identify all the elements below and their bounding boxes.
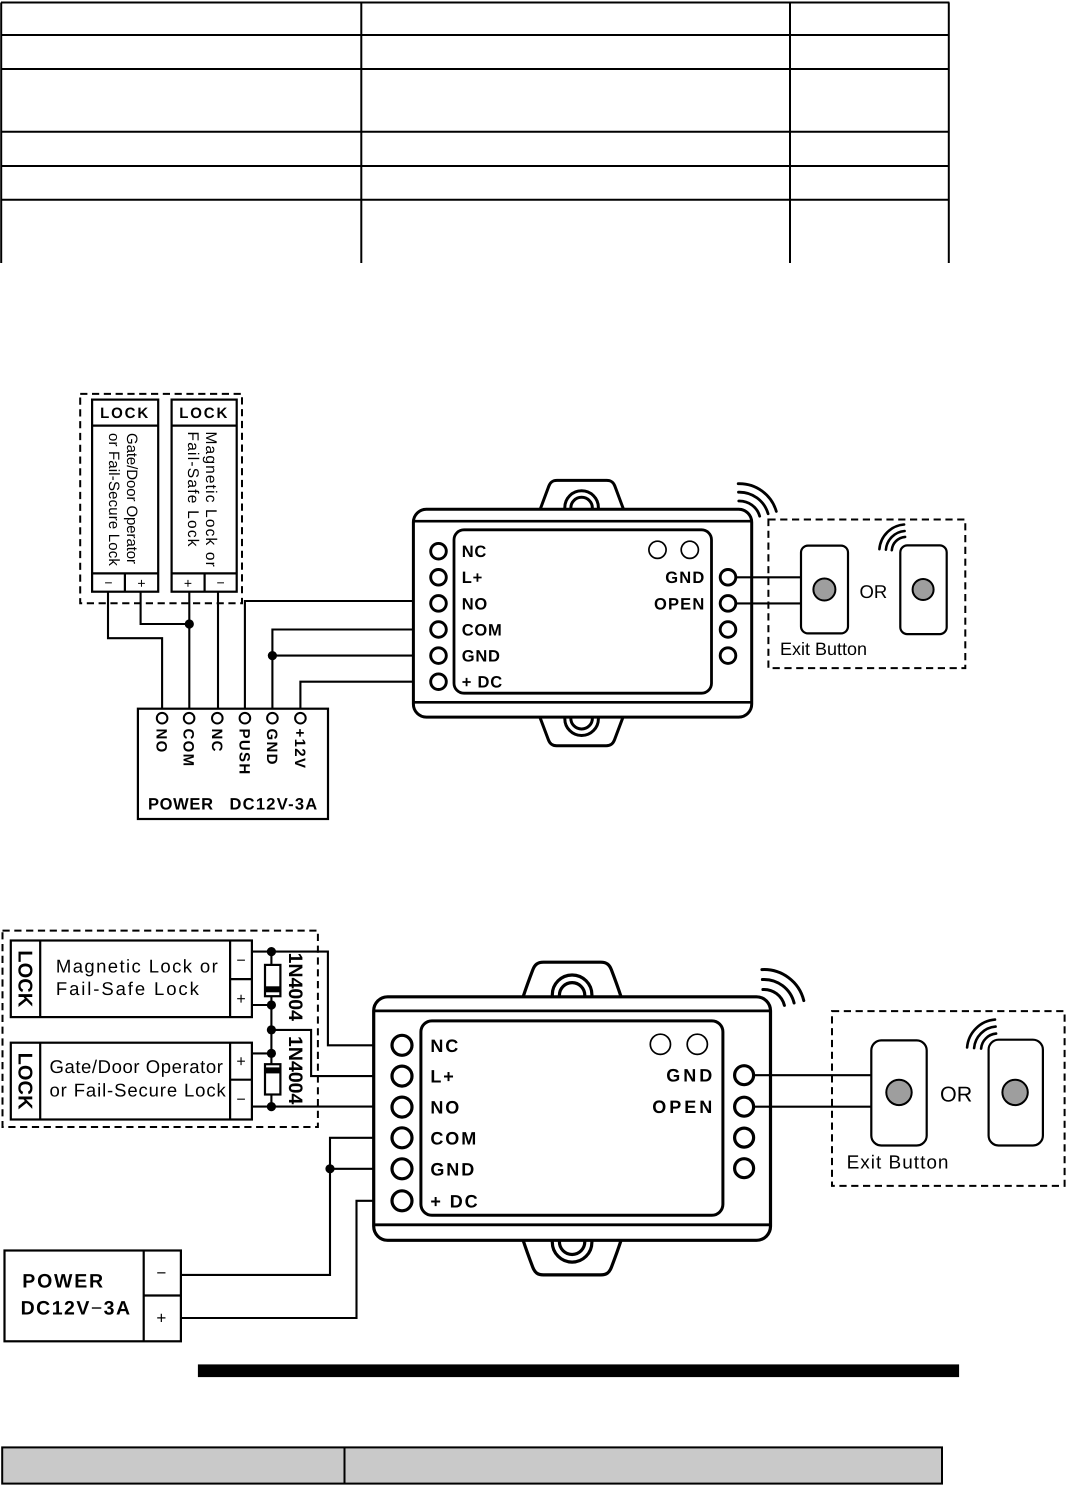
wire controller GND to exit button (diagram 1) (736, 576, 801, 578)
table: bottom gray header row (2, 1447, 942, 1483)
button actuator (wired, diagram 1) (813, 579, 835, 601)
power supply POWER DC12V-3A (diagram 1) (138, 709, 328, 819)
wire controller GND to exit button (diagram 2) (754, 1074, 872, 1076)
wire power +12V to controller +DC (300, 682, 430, 713)
wire power PUSH to controller NO (245, 601, 431, 713)
svg-text:OR: OR (860, 581, 888, 602)
svg-text:−: − (217, 574, 225, 590)
svg-text:+: + (236, 991, 245, 1008)
left terminal pins NC,L+,NO,COM,GND,+DC (diagram 1) (431, 543, 447, 559)
svg-text:LOCK: LOCK (100, 405, 150, 422)
svg-text:GND: GND (462, 648, 501, 666)
svg-text:LOCK: LOCK (13, 1053, 35, 1111)
svg-text:Gate/Door Operator: Gate/Door Operator (50, 1056, 224, 1077)
svg-text:POWER: POWER (148, 795, 214, 813)
exit button wired (diagram 1) (801, 546, 848, 634)
value label 1N4004 (D1) (284, 953, 306, 1021)
svg-text:+12V: +12V (291, 729, 308, 770)
junction dot lockB plus / diode D2 (267, 1049, 276, 1058)
wire branch to controller GND (diagram 2) (330, 1168, 392, 1170)
junction dot lockB minus / diode D2 (267, 1102, 276, 1111)
svg-text:+: + (184, 575, 192, 591)
svg-text:NO: NO (153, 729, 170, 754)
svg-text:LOCK: LOCK (179, 405, 229, 422)
wire power plus to controller +DC (181, 1201, 392, 1318)
wireless signal arcs at controller corner (diagram 2) (762, 970, 804, 1006)
wire lock2 minus to power NC (217, 592, 219, 713)
svg-text:NC: NC (208, 729, 225, 753)
mounting tab bottom (diagram 1) (540, 717, 623, 746)
wire controller OPEN to exit button (diagram 1) (736, 602, 801, 604)
LED indicators (diagram 1) (649, 541, 666, 558)
mounting tab bottom (diagram 2) (523, 1241, 621, 1275)
dashed enclosure around locks (diagram 1) (80, 394, 242, 603)
svg-text:GND: GND (665, 569, 705, 587)
diode D2 1N4004 (265, 1064, 280, 1094)
dashed enclosure around locks (diagram 2) (3, 931, 318, 1127)
wire lock1 plus to junction (141, 592, 190, 624)
svg-text:1N4004: 1N4004 (284, 953, 306, 1021)
svg-text:+ DC: + DC (430, 1191, 479, 1211)
svg-text:−: − (104, 574, 112, 590)
exit button wired (diagram 2) (871, 1040, 926, 1145)
svg-text:NO: NO (430, 1098, 461, 1118)
power terminals NO,COM,NC,PUSH,GND,+12V (157, 713, 168, 724)
svg-text:or Fail-Secure Lock: or Fail-Secure Lock (105, 433, 122, 566)
svg-text:OPEN: OPEN (652, 1097, 715, 1117)
power terminal labels NO,COM,NC,PUSH,GND,+12V (153, 729, 170, 754)
controller terminal panel (diagram 1) (454, 530, 712, 693)
wire diode bus vertical (270, 952, 272, 1107)
diode D1 cathode band (265, 986, 280, 992)
svg-text:+: + (156, 1309, 166, 1328)
wire lockB plus (252, 1052, 272, 1054)
wire lock1 minus to power NO (108, 592, 162, 713)
svg-text:LOCK: LOCK (13, 950, 35, 1008)
wire lockA minus to controller NC (252, 952, 392, 1046)
svg-text:OR: OR (940, 1083, 972, 1107)
svg-text:COM: COM (462, 621, 503, 639)
svg-text:1N4004: 1N4004 (284, 1036, 306, 1104)
wire controller OPEN to exit button (diagram 2) (754, 1106, 872, 1108)
svg-text:POWER: POWER (22, 1271, 105, 1293)
controller body (diagram 2) (374, 997, 771, 1241)
table: empty specification table grid (1, 3, 949, 264)
power supply POWER DC12V-3A (diagram 2) (5, 1251, 181, 1342)
svg-text:L+: L+ (462, 569, 483, 587)
svg-text:DC12V−3A: DC12V−3A (21, 1298, 132, 1320)
controller unit (diagram 2) (374, 962, 804, 1275)
wireless exit button (diagram 1) (879, 525, 946, 635)
svg-text:+: + (236, 1054, 245, 1071)
svg-text:+ DC: + DC (462, 674, 503, 692)
junction dot GND branch (diagram 2) (325, 1164, 334, 1173)
svg-text:COM: COM (180, 729, 197, 768)
svg-text:L+: L+ (430, 1067, 455, 1087)
svg-text:NO: NO (462, 595, 488, 613)
diode D1 1N4004 (265, 965, 280, 996)
svg-text:+: + (137, 575, 145, 591)
svg-text:PUSH: PUSH (236, 729, 253, 776)
svg-text:Fail-Safe Lock: Fail-Safe Lock (56, 978, 201, 999)
wire lock2 plus to power COM (188, 592, 190, 713)
value label 1N4004 (D2) (284, 1036, 306, 1104)
lock LOCK2: Magnetic Lock or Fail-Safe Lock (172, 400, 237, 592)
svg-text:Exit Button: Exit Button (847, 1153, 950, 1174)
lock LOCKB: Gate/Door Operator or Fail-Secure Lock (11, 1043, 252, 1120)
mounting tab top (diagram 2) (523, 962, 621, 996)
LED indicators (diagram 2) (650, 1034, 670, 1054)
svg-text:NC: NC (462, 543, 487, 561)
dashed enclosure exit button (diagram 1) (768, 520, 965, 669)
svg-text:Magnetic Lock or: Magnetic Lock or (202, 432, 219, 568)
wire middle junction to controller L+ (271, 1030, 392, 1076)
controller unit (diagram 1) (413, 480, 776, 745)
svg-text:−: − (236, 1092, 245, 1109)
lock LOCK1: Gate/Door Operator or Fail-Secure Lock (92, 400, 158, 592)
button actuator (wired, diagram 2) (886, 1080, 911, 1105)
left terminal pins NC,L+,NO,COM,GND,+DC (diagram 2) (392, 1035, 412, 1055)
wireless exit button (diagram 2) (967, 1020, 1043, 1146)
controller body (diagram 1) (413, 509, 751, 717)
wire power GND to controller COM (272, 630, 430, 713)
wireless signal arcs (remote, diagram 1) (879, 525, 905, 551)
wireless signal arcs at controller corner (diagram 1) (738, 484, 776, 517)
wire branch power GND to controller GND (272, 655, 430, 657)
svg-text:Exit Button: Exit Button (780, 639, 867, 659)
dashed enclosure exit button (diagram 2) (832, 1011, 1065, 1186)
junction dot lockA minus / diode D1 (267, 947, 276, 956)
svg-text:GND: GND (430, 1159, 476, 1179)
wire lockA plus (252, 1004, 272, 1006)
svg-text:OPEN: OPEN (654, 595, 706, 613)
junction dot lockA plus / diode D1 (267, 1000, 276, 1009)
svg-text:−: − (156, 1264, 166, 1283)
right terminal pins GND,OPEN,spare,spare (diagram 1) (720, 570, 736, 586)
junction dot L+ branch (267, 1025, 276, 1034)
button actuator (wireless, diagram 2) (1002, 1080, 1027, 1105)
divider: thick black bar (198, 1364, 959, 1377)
wire lockB minus to controller NO (252, 1106, 392, 1108)
svg-text:COM: COM (430, 1128, 478, 1148)
junction dot lock1+/lock2+ (185, 619, 194, 628)
svg-text:DC12V-3A: DC12V-3A (230, 795, 319, 813)
right terminal pins GND,OPEN,spare,spare (diagram 2) (735, 1066, 754, 1085)
svg-text:Magnetic Lock or: Magnetic Lock or (56, 956, 219, 977)
mounting tab top (diagram 1) (540, 480, 623, 509)
svg-text:GND: GND (263, 729, 280, 766)
svg-text:GND: GND (666, 1066, 715, 1086)
diode D2 cathode band (265, 1067, 280, 1073)
wire power minus to controller COM (181, 1138, 392, 1275)
junction dot GND branch (268, 651, 277, 660)
svg-text:Fail-Safe Lock: Fail-Safe Lock (184, 432, 201, 548)
svg-text:NC: NC (430, 1036, 460, 1056)
wireless signal arcs (remote, diagram 2) (967, 1020, 996, 1049)
svg-text:Gate/Door Operator: Gate/Door Operator (123, 433, 140, 564)
button actuator (wireless, diagram 1) (913, 579, 934, 600)
svg-text:or Fail-Secure Lock: or Fail-Secure Lock (50, 1080, 227, 1101)
lock LOCKA: Magnetic Lock or Fail-Safe Lock (11, 941, 252, 1018)
svg-text:−: − (236, 952, 245, 969)
controller terminal panel (diagram 2) (421, 1021, 723, 1215)
